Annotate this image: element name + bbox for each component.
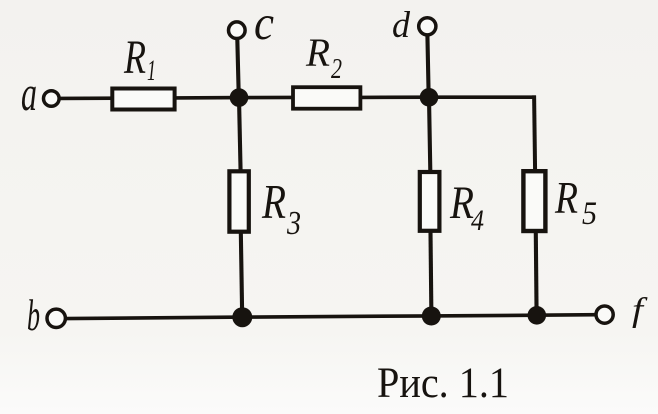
wire junction c to R2 [239,96,294,100]
junction node between R1 and R2 (below c) [230,88,249,107]
wire junction to R4 [429,97,430,171]
svg-text:b: b [27,291,40,340]
svg-text:R: R [554,173,578,223]
svg-text:a: a [21,65,37,121]
terminal a [44,91,60,107]
resistor R2 [293,87,360,109]
svg-text:d: d [392,5,410,46]
terminal c [229,22,246,39]
terminal b [47,309,65,327]
wire terminal d to junction [427,35,428,98]
svg-text:1: 1 [147,54,156,87]
bottom junction node under R5 [528,306,547,325]
svg-text:3: 3 [286,205,301,242]
resistor R4 [420,172,440,231]
wire R3 to bottom bus [241,231,242,317]
terminal f [596,306,613,323]
wire right corner down to R5 [534,95,535,172]
junction node between R2 and corner (below d) [420,88,439,107]
wire R2 to node junction d [361,95,430,99]
wire bottom node 1 to node 2 [242,316,432,317]
wire bottom node 3 to f [537,313,596,317]
wire b to bottom node 1 [65,317,243,319]
resistor R5 [523,171,545,231]
wire a to R1 [59,96,113,100]
svg-text:4: 4 [471,204,484,237]
svg-text:5: 5 [582,196,597,232]
wire junction d to right corner [429,95,536,99]
wire bottom node 2 to node 3 [431,313,538,317]
wire junction to R3 [239,98,241,172]
bottom junction node under R4 [422,307,441,326]
terminal d [419,18,436,35]
svg-text:R: R [123,31,146,84]
svg-text:c: c [254,0,274,50]
svg-text:2: 2 [331,54,342,85]
wire R5 to bottom bus [534,233,539,317]
svg-text:R: R [261,174,286,229]
resistor R1 [112,89,174,110]
wire terminal c to junction [237,39,239,98]
wire R4 to bottom bus [428,232,433,316]
svg-text:Рис. 1.1: Рис. 1.1 [377,360,509,407]
svg-text:R: R [305,30,330,75]
wire R1 to node junction c [175,96,240,100]
bottom junction node under R3 [232,307,252,327]
resistor R3 [229,171,248,231]
